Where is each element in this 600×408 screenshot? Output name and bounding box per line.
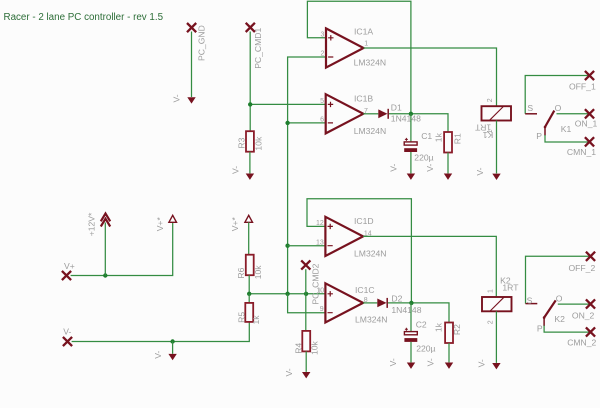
terminal V- left xyxy=(63,337,72,346)
wire IC1B output to D1 xyxy=(363,113,378,115)
wire elbow to IC1C pin9 xyxy=(288,294,326,313)
wire R1 to ground xyxy=(447,153,449,174)
svg-text:CMN_1: CMN_1 xyxy=(567,147,596,157)
svg-text:V+*: V+* xyxy=(155,217,165,232)
wire V- rail xyxy=(72,322,250,342)
diode D2 xyxy=(377,293,421,315)
resistor R3 xyxy=(246,131,254,152)
svg-text:CMN_2: CMN_2 xyxy=(567,337,596,347)
wire Vref node to IC1C pin10 xyxy=(249,293,325,295)
ground V- arrow under C1 xyxy=(407,174,415,180)
terminal CMN_1 xyxy=(585,137,594,146)
svg-text:13: 13 xyxy=(316,239,324,246)
svg-text:+12V*: +12V* xyxy=(86,212,96,236)
terminal ON_1 xyxy=(585,109,594,118)
svg-text:Racer - 2 lane PC controller -: Racer - 2 lane PC controller - rev 1.5 xyxy=(4,12,164,23)
svg-text:R6: R6 xyxy=(236,267,246,278)
svg-text:PC_GND: PC_GND xyxy=(197,25,207,61)
svg-text:1k: 1k xyxy=(433,132,443,142)
svg-text:V-: V- xyxy=(153,350,163,358)
svg-text:10k: 10k xyxy=(253,136,263,151)
ground V- arrow under R1 xyxy=(444,174,452,180)
junction xyxy=(409,112,413,116)
wire D2 to R2 xyxy=(388,303,449,323)
wire V+* to R6 xyxy=(248,222,250,254)
terminal OFF_1 xyxy=(585,71,594,80)
junction xyxy=(409,301,413,305)
terminal PC_GND xyxy=(187,23,196,32)
wire OFF_2 xyxy=(526,256,591,303)
svg-text:9: 9 xyxy=(320,306,324,313)
wire IC1A feedback box xyxy=(307,1,411,114)
wire R3 to ground xyxy=(249,152,251,174)
op-amp IC1B xyxy=(320,93,386,136)
wire PC_CMD1 down to R3 xyxy=(249,32,251,132)
wire CMN_2 xyxy=(544,326,590,333)
svg-text:V+: V+ xyxy=(64,261,75,271)
wire ON_1 xyxy=(557,113,590,115)
capacitor C2 xyxy=(404,320,435,354)
resistor R1 xyxy=(444,132,452,153)
svg-text:V-: V- xyxy=(63,326,71,336)
ground V- arrow under R4 xyxy=(302,372,310,378)
capacitor C1 xyxy=(404,131,433,163)
terminal PC_CMD2 xyxy=(301,260,310,269)
svg-text:D2: D2 xyxy=(391,293,402,303)
wire IC1B pin6 xyxy=(288,122,326,124)
svg-text:1k: 1k xyxy=(251,315,261,325)
svg-text:S: S xyxy=(527,103,533,113)
svg-text:PC_CMD1: PC_CMD1 xyxy=(253,28,263,69)
svg-text:6: 6 xyxy=(320,117,324,124)
svg-text:R3: R3 xyxy=(236,137,246,148)
wire CMN_1 xyxy=(545,135,590,142)
svg-text:V-: V- xyxy=(284,368,294,376)
svg-text:2: 2 xyxy=(488,320,495,324)
svg-text:K1: K1 xyxy=(561,124,572,134)
terminal CMN_2 xyxy=(586,327,595,336)
wire junction to +12V xyxy=(104,223,106,276)
svg-text:V-: V- xyxy=(230,166,240,174)
svg-text:R4: R4 xyxy=(294,343,304,354)
svg-text:OFF_2: OFF_2 xyxy=(569,263,596,273)
svg-text:V-: V- xyxy=(425,358,435,366)
svg-text:5: 5 xyxy=(320,98,324,105)
junction xyxy=(285,244,289,248)
svg-text:220µ: 220µ xyxy=(416,344,435,354)
svg-text:O: O xyxy=(556,293,563,303)
wire C2 to ground xyxy=(410,342,412,363)
svg-text:D1: D1 xyxy=(391,103,402,113)
svg-text:V+*: V+* xyxy=(230,217,240,232)
resistor R5 xyxy=(245,303,253,322)
relay K1 coil xyxy=(474,98,511,140)
switch K1 xyxy=(525,103,571,141)
wire junction to ground arrow xyxy=(172,342,174,354)
svg-text:K2: K2 xyxy=(554,314,565,324)
svg-text:R1: R1 xyxy=(452,133,462,144)
svg-text:LM324N: LM324N xyxy=(354,126,386,136)
svg-text:C2: C2 xyxy=(416,320,427,330)
wire OFF_1 xyxy=(525,76,589,114)
junction xyxy=(285,121,289,125)
wire IC1A output to relay K1 xyxy=(364,48,497,106)
svg-text:1: 1 xyxy=(488,289,495,293)
svg-text:2: 2 xyxy=(320,51,324,58)
op-amp IC1D xyxy=(316,216,386,258)
svg-text:1N4148: 1N4148 xyxy=(391,305,421,315)
wire R4 to ground xyxy=(305,351,307,372)
wire C1 to ground xyxy=(410,152,412,173)
switch K2 xyxy=(526,293,566,333)
wire K2 to ground xyxy=(495,311,497,363)
svg-text:V-: V- xyxy=(388,358,398,366)
wire R2 to ground xyxy=(448,343,450,362)
svg-text:ON_2: ON_2 xyxy=(572,311,595,321)
wire IC1D feedback box xyxy=(307,199,411,303)
wire V+ rail xyxy=(71,222,173,275)
terminal ON_2 xyxy=(586,299,595,308)
svg-text:K1: K1 xyxy=(482,130,493,140)
resistor R2 xyxy=(445,323,453,344)
svg-text:LM324N: LM324N xyxy=(354,248,386,258)
svg-text:LM324N: LM324N xyxy=(354,57,386,67)
junction xyxy=(103,273,107,277)
svg-text:R5: R5 xyxy=(237,312,247,323)
wire IC1A inverting input xyxy=(288,57,326,294)
svg-text:C1: C1 xyxy=(421,131,432,141)
wire junction to C1 xyxy=(410,114,412,142)
wire IC1C output to D2 xyxy=(363,302,377,304)
svg-text:3: 3 xyxy=(320,31,324,38)
svg-text:1N4148: 1N4148 xyxy=(391,114,421,124)
svg-text:220µ: 220µ xyxy=(414,153,433,163)
op-amp IC1A xyxy=(320,27,386,68)
diode D1 xyxy=(378,103,421,124)
junction xyxy=(170,339,174,343)
svg-text:LM324N: LM324N xyxy=(355,315,387,325)
ground V- arrow under R2 xyxy=(445,363,453,369)
svg-text:IC1C: IC1C xyxy=(355,285,375,295)
op-amp IC1C xyxy=(316,283,387,324)
terminal OFF_2 xyxy=(586,252,595,261)
wire junction to C2 xyxy=(410,303,412,331)
supply V+ terminal xyxy=(62,271,71,280)
svg-text:10: 10 xyxy=(316,287,324,294)
junction xyxy=(304,292,308,296)
svg-text:V-: V- xyxy=(389,164,399,172)
terminal PC_CMD1 xyxy=(246,23,255,32)
wire IC1D pin13 xyxy=(288,245,326,247)
wire node to IC1B pin5 xyxy=(250,103,326,105)
svg-text:O: O xyxy=(555,103,562,113)
svg-text:IC1B: IC1B xyxy=(354,93,373,103)
supply V+* arrow left xyxy=(169,215,177,222)
ground V- arrow under K1 xyxy=(492,174,500,180)
ground V- arrow under C2 xyxy=(407,363,415,369)
ground V- arrow under K2 xyxy=(492,363,500,369)
wire D1 to R1 xyxy=(389,114,448,132)
svg-text:OFF_1: OFF_1 xyxy=(569,81,596,91)
svg-text:P: P xyxy=(537,324,543,334)
svg-text:V-: V- xyxy=(171,94,181,102)
resistor R4 xyxy=(302,331,310,352)
ground V- arrow under R3 xyxy=(246,174,254,180)
svg-text:P: P xyxy=(536,131,542,141)
relay K2 coil xyxy=(482,276,519,325)
supply +12V chevron xyxy=(101,214,110,227)
svg-text:ON_1: ON_1 xyxy=(575,119,598,129)
svg-text:10k: 10k xyxy=(310,340,320,355)
svg-text:2: 2 xyxy=(487,98,494,102)
supply V+* arrow right xyxy=(245,215,253,222)
ground V- arrow under PC_GND xyxy=(187,97,195,103)
wire node to R5 xyxy=(248,294,250,303)
svg-text:V-: V- xyxy=(475,167,485,175)
svg-text:PC_CMD2: PC_CMD2 xyxy=(311,263,321,304)
svg-text:V-: V- xyxy=(425,164,435,172)
junction xyxy=(248,102,252,106)
svg-text:V-: V- xyxy=(477,359,487,367)
svg-text:S: S xyxy=(527,295,533,305)
wire K1 to ground xyxy=(496,121,498,174)
wire PC_CMD2 vertical xyxy=(305,269,307,331)
wire PC_GND down xyxy=(191,32,193,98)
junction xyxy=(247,292,251,296)
svg-text:12: 12 xyxy=(316,220,324,227)
svg-text:10k: 10k xyxy=(253,265,263,280)
wire ON_2 xyxy=(558,303,591,305)
resistor R6 xyxy=(246,255,254,276)
svg-text:1k: 1k xyxy=(434,322,444,332)
ground V- arrow on rail xyxy=(168,354,176,360)
junction xyxy=(285,292,289,296)
svg-text:IC1A: IC1A xyxy=(354,27,373,37)
wire IC1D output to relay K2 xyxy=(363,236,496,297)
svg-text:1: 1 xyxy=(364,40,368,47)
svg-text:R2: R2 xyxy=(452,324,462,335)
svg-text:1RT: 1RT xyxy=(502,283,519,293)
wire R6 to node xyxy=(248,275,250,294)
svg-text:IC1D: IC1D xyxy=(354,216,374,226)
